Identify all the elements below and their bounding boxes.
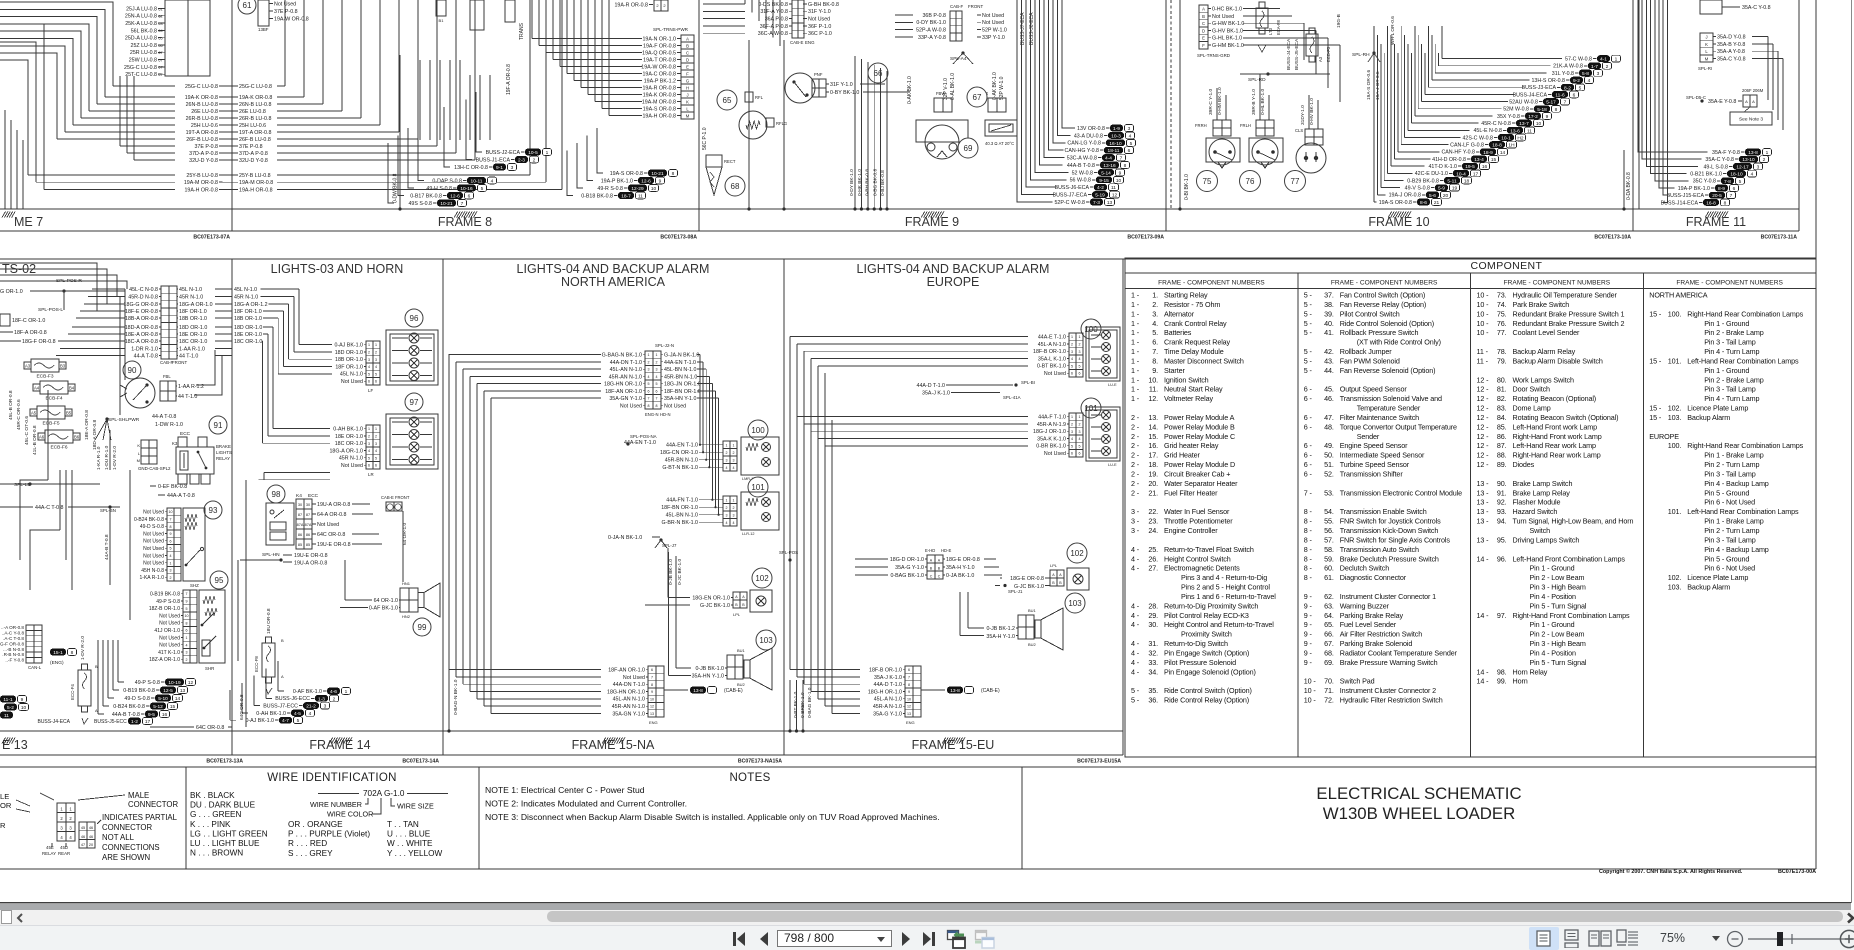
svg-text:Park Brake Switch: Park Brake Switch <box>1513 300 1570 309</box>
svg-text:A: A <box>281 674 284 679</box>
svg-text:Engine Speed Sensor: Engine Speed Sensor <box>1340 441 1408 450</box>
svg-text:FRONT: FRONT <box>172 360 187 365</box>
svg-text:20.: 20. <box>1148 479 1158 488</box>
svg-text:44A-F T-1.0: 44A-F T-1.0 <box>1038 415 1066 421</box>
svg-text:18F-AN OR-1.0: 18F-AN OR-1.0 <box>605 389 642 395</box>
svg-text:Not Used: Not Used <box>159 643 180 649</box>
svg-text:1: 1 <box>186 636 188 640</box>
svg-text:101.: 101. <box>1668 507 1682 516</box>
svg-text:Rollback Pressure Switch: Rollback Pressure Switch <box>1340 328 1419 337</box>
svg-text:4-1: 4-1 <box>1600 57 1607 63</box>
svg-text:19A-S OR-0.6: 19A-S OR-0.6 <box>1366 70 1372 100</box>
svg-text:85.: 85. <box>1497 422 1507 431</box>
connector CAN-L <box>26 625 34 663</box>
svg-text:18F-A OR-0.8: 18F-A OR-0.8 <box>14 330 47 336</box>
svg-text:10: 10 <box>21 705 27 711</box>
svg-text:26F-B LU-0.8: 26F-B LU-0.8 <box>186 137 218 143</box>
svg-text:100.: 100. <box>1668 309 1682 318</box>
svg-text:10 -: 10 - <box>1304 696 1317 705</box>
svg-text:49-H S-0.8: 49-H S-0.8 <box>426 186 452 192</box>
svg-text:15.: 15. <box>1148 432 1158 441</box>
svg-text:34.: 34. <box>1148 667 1158 676</box>
svg-text:SPL-TRNS-PWR: SPL-TRNS-PWR <box>653 27 689 32</box>
svg-text:J: J <box>1705 34 1707 39</box>
svg-text:25T-C LU-0.8: 25T-C LU-0.8 <box>125 72 157 78</box>
svg-text:4: 4 <box>1129 133 1132 139</box>
svg-text:25D-A LU-0.8: 25D-A LU-0.8 <box>125 36 157 42</box>
svg-text:1H: 1H <box>1508 143 1515 149</box>
svg-text:3: 3 <box>648 368 650 372</box>
svg-text:BC07E173-14A: BC07E173-14A <box>402 759 439 765</box>
svg-text:See Note 3: See Note 3 <box>1739 117 1763 123</box>
svg-text:2: 2 <box>1079 343 1081 347</box>
svg-text:Pin 1 - Brake Lamp: Pin 1 - Brake Lamp <box>1704 451 1763 460</box>
svg-text:13-4: 13-4 <box>1474 157 1484 163</box>
svg-text:8: 8 <box>1124 163 1127 169</box>
svg-text:66: 66 <box>158 44 162 48</box>
svg-text:90: 90 <box>128 366 137 375</box>
svg-text:Pin 4 - Turn Lamp: Pin 4 - Turn Lamp <box>1704 347 1759 356</box>
zoom slider <box>1746 930 1854 948</box>
svg-text:49-P S-0.8: 49-P S-0.8 <box>135 680 160 686</box>
svg-text:Transmission Solenoid Valve an: Transmission Solenoid Valve and <box>1340 394 1442 403</box>
svg-text:9-15: 9-15 <box>1099 178 1109 184</box>
svg-text:45E: 45E <box>46 845 54 850</box>
svg-text:GND-CAB-SPL2: GND-CAB-SPL2 <box>138 466 171 471</box>
svg-text:2: 2 <box>656 360 658 364</box>
svg-text:4: 4 <box>1751 172 1754 178</box>
junction dot frame 10 right <box>1622 207 1625 210</box>
svg-text:87A: 87A <box>305 523 312 527</box>
svg-text:35A-HN Y-1.0: 35A-HN Y-1.0 <box>692 674 724 680</box>
svg-text:31L Y-0.8: 31L Y-0.8 <box>1552 71 1574 77</box>
svg-text:5: 5 <box>375 456 377 460</box>
svg-text:4: 4 <box>491 179 494 185</box>
svg-text:25J-A LU-0.8: 25J-A LU-0.8 <box>126 6 157 12</box>
svg-text:B4: B4 <box>69 386 75 391</box>
svg-text:38.: 38. <box>1324 300 1334 309</box>
middle band borders <box>0 258 1816 260</box>
fuse ECB-F6 <box>38 433 45 440</box>
svg-text:BC07E173-11A: BC07E173-11A <box>1761 235 1798 241</box>
svg-text:14: 14 <box>175 696 181 702</box>
svg-text:Brake Lamp Switch: Brake Lamp Switch <box>1513 479 1573 488</box>
svg-text:6: 6 <box>375 380 377 384</box>
svg-text:0-AH BK-1.0: 0-AH BK-1.0 <box>256 711 286 717</box>
svg-text:19A-H OR-0.8: 19A-H OR-0.8 <box>642 113 676 119</box>
svg-text:40.: 40. <box>1324 319 1334 328</box>
svg-text:1: 1 <box>1071 415 1073 419</box>
svg-text:ECB-F5: ECB-F5 <box>42 421 59 427</box>
svg-text:1-7: 1-7 <box>1591 64 1598 70</box>
svg-text:..A-C Y-0.8: ..A-C Y-0.8 <box>2 631 25 636</box>
svg-text:8 -: 8 - <box>1304 507 1313 516</box>
svg-text:10: 10 <box>169 510 173 514</box>
svg-text:18F-BN OR-1.0: 18F-BN OR-1.0 <box>664 389 701 395</box>
svg-text:7: 7 <box>1564 100 1567 106</box>
svg-text:44A-DN T-1.0: 44A-DN T-1.0 <box>613 682 645 688</box>
history forward icon (disabled) <box>973 929 995 949</box>
module 100 EU <box>1081 319 1101 339</box>
svg-text:0-B24 BK-0.8: 0-B24 BK-0.8 <box>134 517 164 523</box>
svg-text:SPL-BN: SPL-BN <box>100 508 116 513</box>
svg-text:50.: 50. <box>1324 451 1334 460</box>
svg-text:0-AJ BK-1.0: 0-AJ BK-1.0 <box>245 718 274 724</box>
svg-text:36F-A P-0.8: 36F-A P-0.8 <box>760 24 788 30</box>
svg-text:61: 61 <box>243 1 252 10</box>
svg-text:0-HL BK-1.0: 0-HL BK-1.0 <box>1260 88 1266 115</box>
svg-text:BC07E173-09A: BC07E173-09A <box>1127 235 1164 241</box>
svg-text:19A-R OR-0.8: 19A-R OR-0.8 <box>614 3 648 9</box>
svg-text:13: 13 <box>907 712 911 716</box>
svg-text:18G-H OR-1.0: 18G-H OR-1.0 <box>868 689 902 695</box>
svg-text:Pin 4 - Backup Lamp: Pin 4 - Backup Lamp <box>1704 545 1769 554</box>
svg-text:Pin 6 - Not Used: Pin 6 - Not Used <box>1704 564 1755 573</box>
svg-text:BC07E173-NA15A: BC07E173-NA15A <box>738 759 782 765</box>
svg-text:Not Used: Not Used <box>982 13 1004 19</box>
svg-text:FRAME 8: FRAME 8 <box>438 215 492 229</box>
svg-text:7: 7 <box>651 676 653 680</box>
svg-text:5: 5 <box>1739 179 1742 185</box>
svg-text:1: 1 <box>733 498 735 502</box>
svg-text:7-8: 7-8 <box>1724 179 1731 185</box>
last page button <box>921 931 937 947</box>
svg-text:19A-S OR-0.8: 19A-S OR-0.8 <box>643 106 676 112</box>
svg-text:C: C <box>686 50 689 55</box>
fuse symbols frame 10 <box>1259 2 1265 8</box>
svg-text:18B OR-1.0: 18B OR-1.0 <box>234 316 262 322</box>
switch assembly SHZ circled 93 <box>204 501 222 519</box>
svg-text:3: 3 <box>733 513 735 517</box>
svg-text:8.: 8. <box>1152 356 1158 365</box>
svg-text:8: 8 <box>908 683 910 687</box>
svg-text:2: 2 <box>368 435 370 439</box>
svg-text:LF: LF <box>368 388 373 393</box>
svg-text:12 -: 12 - <box>1477 394 1490 403</box>
svg-text:90.: 90. <box>1497 479 1507 488</box>
svg-text:5.: 5. <box>1152 328 1158 337</box>
svg-text:69.: 69. <box>1324 658 1334 667</box>
svg-text:12 -: 12 - <box>1477 451 1490 460</box>
svg-text:102: 102 <box>755 574 769 583</box>
svg-text:Pin 5 - Turn Signal: Pin 5 - Turn Signal <box>1530 658 1587 667</box>
svg-text:4.: 4. <box>1152 319 1158 328</box>
vertical wire 0-DW BK-0.8 <box>399 55 401 209</box>
svg-text:4: 4 <box>375 365 377 369</box>
svg-text:5 -: 5 - <box>1304 319 1313 328</box>
svg-text:49.: 49. <box>1324 441 1334 450</box>
svg-text:36A P-0.8: 36A P-0.8 <box>765 17 788 23</box>
svg-text:4: 4 <box>733 521 735 525</box>
svg-text:46: 46 <box>81 835 85 839</box>
svg-text:Height Control Switch: Height Control Switch <box>1164 554 1231 563</box>
svg-text:18C-A OR-0.8: 18C-A OR-0.8 <box>125 339 158 345</box>
svg-text:1: 1 <box>368 427 370 431</box>
svg-text:27.: 27. <box>1148 564 1158 573</box>
svg-text:13 -: 13 - <box>1477 517 1490 526</box>
svg-text:1-3: 1-3 <box>318 696 325 702</box>
svg-text:8: 8 <box>170 525 172 529</box>
svg-text:5 -: 5 - <box>1304 366 1313 375</box>
svg-text:81.: 81. <box>1497 385 1507 394</box>
svg-text:26.: 26. <box>1148 554 1158 563</box>
svg-text:65: 65 <box>158 37 162 41</box>
svg-text:1 -: 1 - <box>1131 291 1140 300</box>
svg-text:E: E <box>686 64 689 69</box>
licence plate lamp 102 EU <box>1067 543 1087 563</box>
svg-text:44A-B T-0.8: 44A-B T-0.8 <box>104 534 110 560</box>
svg-text:1: 1 <box>656 353 658 357</box>
svg-text:SPL-TRNS-GRD: SPL-TRNS-GRD <box>1197 53 1230 58</box>
svg-text:8: 8 <box>1555 107 1558 113</box>
svg-text:45L-BN N-1.0: 45L-BN N-1.0 <box>666 513 698 519</box>
svg-text:Return-to-Dig Switch: Return-to-Dig Switch <box>1164 639 1228 648</box>
svg-text:BUSS-J6-ECA: BUSS-J6-ECA <box>1029 12 1035 45</box>
svg-text:LIGHTS-04 AND BACKUP ALARM: LIGHTS-04 AND BACKUP ALARM <box>517 262 710 276</box>
svg-text:3: 3 <box>1079 430 1081 434</box>
svg-text:(CAB-E): (CAB-E) <box>981 688 1000 694</box>
svg-text:65.: 65. <box>1324 620 1334 629</box>
svg-text:Pin 5 - Ground: Pin 5 - Ground <box>1704 488 1749 497</box>
licence plate lamp 102 NA <box>752 568 772 588</box>
svg-text:CAN-LG Y-0.8: CAN-LG Y-0.8 <box>1067 141 1101 147</box>
svg-text:56C P-1.0: 56C P-1.0 <box>702 127 708 150</box>
svg-text:26N-B LU-0.8: 26N-B LU-0.8 <box>186 102 218 108</box>
svg-text:0-DY BK-1.0: 0-DY BK-1.0 <box>916 20 946 26</box>
svg-text:0-BG BK-0.8: 0-BG BK-0.8 <box>872 168 878 196</box>
next page button <box>899 931 913 947</box>
svg-text:0-JC BK-1.0: 0-JC BK-1.0 <box>677 559 683 585</box>
svg-text:21-2: 21-2 <box>306 704 316 710</box>
svg-text:1 -: 1 - <box>1131 338 1140 347</box>
svg-text:C: C <box>1202 21 1205 26</box>
svg-text:Not Used: Not Used <box>982 20 1004 26</box>
svg-text:G-HM BK-1.0: G-HM BK-1.0 <box>1212 43 1244 49</box>
svg-text:8 -: 8 - <box>1304 573 1313 582</box>
svg-text:8-2: 8-2 <box>1564 85 1571 91</box>
svg-text:Throttle Potentiometer: Throttle Potentiometer <box>1164 517 1233 526</box>
svg-text:Transmission Kick-Down Switch: Transmission Kick-Down Switch <box>1340 526 1439 535</box>
svg-text:19A-P BK-1.2: 19A-P BK-1.2 <box>644 78 676 84</box>
svg-text:2 -: 2 - <box>1131 451 1140 460</box>
svg-text:5: 5 <box>1071 444 1073 448</box>
svg-text:19A-M OR-0.8: 19A-M OR-0.8 <box>239 180 273 186</box>
svg-text:G-BAG-N BK-1.0: G-BAG-N BK-1.0 <box>602 353 642 359</box>
svg-text:Hazard Switch: Hazard Switch <box>1513 507 1558 516</box>
svg-text:44A-B T-0.8: 44A-B T-0.8 <box>112 712 140 718</box>
svg-text:25N-A LU-0.8: 25N-A LU-0.8 <box>125 14 157 20</box>
svg-text:45L-A N-1.0: 45L-A N-1.0 <box>874 697 902 703</box>
svg-text:44A-EN T-1.0: 44A-EN T-1.0 <box>664 360 696 366</box>
svg-text:10.: 10. <box>1148 375 1158 384</box>
svg-text:2: 2 <box>1071 423 1073 427</box>
svg-text:4: 4 <box>1079 357 1081 361</box>
svg-text:67.: 67. <box>1324 639 1334 648</box>
svg-text:Pin 3 - High Beam: Pin 3 - High Beam <box>1530 639 1586 648</box>
svg-text:FRLH: FRLH <box>1240 123 1251 128</box>
svg-text:Power Relay Module C: Power Relay Module C <box>1164 432 1235 441</box>
svg-text:HD-N: HD-N <box>660 412 670 417</box>
svg-text:Pins 1 and 6 - Return-to-Trave: Pins 1 and 6 - Return-to-Travel <box>1181 592 1276 601</box>
svg-text:..G-F OR-0.8: ..G-F OR-0.8 <box>0 641 24 646</box>
svg-text:FRAME 11: FRAME 11 <box>1686 215 1746 229</box>
svg-text:0-B19 BK-0.8: 0-B19 BK-0.8 <box>150 592 180 598</box>
svg-text:Not Used: Not Used <box>317 522 339 528</box>
svg-text:2: 2 <box>1763 157 1766 163</box>
svg-text:19A-W OR-0.8: 19A-W OR-0.8 <box>641 64 676 70</box>
svg-text:18G-A OR-1.2: 18G-A OR-1.2 <box>234 302 268 308</box>
svg-text:19A-P BK-1.0: 19A-P BK-1.0 <box>1678 186 1710 192</box>
svg-text:Turbine Speed Sensor: Turbine Speed Sensor <box>1340 460 1410 469</box>
svg-text:9 -: 9 - <box>1304 611 1313 620</box>
svg-text:11: 11 <box>1527 128 1532 134</box>
svg-text:1: 1 <box>368 343 370 347</box>
svg-text:BUSS-J7-ECA: BUSS-J7-ECA <box>1020 12 1026 45</box>
svg-text:2 -: 2 - <box>1131 488 1140 497</box>
svg-text:4 -: 4 - <box>1131 601 1140 610</box>
svg-text:4: 4 <box>368 365 370 369</box>
svg-text:10 -: 10 - <box>1477 291 1490 300</box>
svg-text:32.: 32. <box>1148 648 1158 657</box>
svg-text:36B P-0.8: 36B P-0.8 <box>922 13 946 19</box>
svg-text:56L BK-0.8: 56L BK-0.8 <box>131 28 157 34</box>
svg-text:5: 5 <box>648 382 650 386</box>
svg-text:R: R <box>0 821 6 830</box>
svg-text:45L-C OT-0.6: 45L-C OT-0.6 <box>24 416 30 445</box>
svg-text:(ENG): (ENG) <box>50 660 64 666</box>
svg-text:49-R S-0.8: 49-R S-0.8 <box>597 186 623 192</box>
svg-text:26R-B LU-0.8: 26R-B LU-0.8 <box>186 116 218 122</box>
svg-text:10 -: 10 - <box>1477 319 1490 328</box>
svg-text:35A-C Y-0.8: 35A-C Y-0.8 <box>1717 56 1746 62</box>
svg-text:1-DU R-1.0: 1-DU R-1.0 <box>104 445 110 470</box>
svg-text:B6: B6 <box>74 435 80 440</box>
svg-text:SPL-J2-N: SPL-J2-N <box>655 343 674 348</box>
svg-text:13 -: 13 - <box>1477 498 1490 507</box>
svg-text:19G-B: 19G-B <box>1336 14 1342 28</box>
svg-text:BC07E173-07A: BC07E173-07A <box>193 235 230 241</box>
svg-text:9 -: 9 - <box>1304 658 1313 667</box>
svg-text:Pin 3 - Tail Lamp: Pin 3 - Tail Lamp <box>1704 535 1755 544</box>
svg-text:9 -: 9 - <box>1304 630 1313 639</box>
svg-text:67: 67 <box>973 93 982 102</box>
svg-text:18G-CN OR-1.0: 18G-CN OR-1.0 <box>660 450 698 456</box>
svg-text:57.: 57. <box>1324 535 1334 544</box>
svg-text:78.: 78. <box>1497 347 1507 356</box>
svg-text:2-3: 2-3 <box>518 158 525 164</box>
svg-text:Instrument Cluster Connector 1: Instrument Cluster Connector 1 <box>1340 592 1436 601</box>
svg-text:103: 103 <box>1068 599 1082 608</box>
svg-text:18G-HN OR-1.0: 18G-HN OR-1.0 <box>607 689 645 695</box>
svg-text:12-5: 12-5 <box>163 688 173 694</box>
svg-text:Time Delay Module: Time Delay Module <box>1164 347 1224 356</box>
svg-text:10-5: 10-5 <box>528 150 538 156</box>
svg-text:SPL-RI: SPL-RI <box>1698 66 1712 71</box>
svg-text:35.: 35. <box>1148 686 1158 695</box>
svg-text:Pin 4 - Position: Pin 4 - Position <box>1530 592 1577 601</box>
svg-text:0-B24 BK-0.8: 0-B24 BK-0.8 <box>113 704 145 710</box>
svg-text:21.: 21. <box>1148 488 1158 497</box>
svg-text:7: 7 <box>1120 156 1123 162</box>
svg-text:Rotating Beacon (Optional): Rotating Beacon (Optional) <box>1513 394 1597 403</box>
svg-text:12 -: 12 - <box>1477 460 1490 469</box>
svg-text:6: 6 <box>1079 372 1081 376</box>
svg-text:59.: 59. <box>1324 554 1334 563</box>
svg-text:LLR-12: LLR-12 <box>742 532 754 536</box>
svg-text:18E-A OR-0.8: 18E-A OR-0.8 <box>84 410 90 440</box>
svg-text:Pin 2 - Brake Lamp: Pin 2 - Brake Lamp <box>1704 375 1763 384</box>
svg-text:Y . . . YELLOW: Y . . . YELLOW <box>387 849 442 858</box>
svg-text:18D OR-1.0: 18D OR-1.0 <box>335 350 363 356</box>
svg-text:SPL-POS: SPL-POS <box>779 550 798 555</box>
svg-text:6 -: 6 - <box>1304 385 1313 394</box>
svg-text:Driving Lamps Switch: Driving Lamps Switch <box>1513 535 1580 544</box>
resistor WRG 40.3 ohm <box>988 98 997 112</box>
svg-text:NOTES: NOTES <box>729 772 770 784</box>
svg-text:RFL: RFL <box>755 95 764 100</box>
svg-text:LIGHTS-03 AND HORN: LIGHTS-03 AND HORN <box>271 262 404 276</box>
svg-text:DU . DARK BLUE: DU . DARK BLUE <box>190 801 256 810</box>
svg-text:18F-E OR-0.8: 18F-E OR-0.8 <box>125 309 158 315</box>
svg-text:0-BAG BK-1.0: 0-BAG BK-1.0 <box>807 687 813 718</box>
svg-text:Diagnostic Connector: Diagnostic Connector <box>1340 573 1407 582</box>
svg-text:7.: 7. <box>1152 347 1158 356</box>
svg-text:45R-BN N-1.0: 45R-BN N-1.0 <box>664 374 697 380</box>
svg-text:BU2: BU2 <box>737 682 746 687</box>
svg-text:Sender: Sender <box>1357 432 1380 441</box>
svg-text:25H LU-0.6: 25H LU-0.6 <box>239 123 266 129</box>
EU feeder wire 7th row <box>832 712 860 714</box>
svg-text:0-BAG BK-1.0: 0-BAG BK-1.0 <box>890 573 924 579</box>
svg-text:10-21: 10-21 <box>440 201 453 207</box>
svg-text:15: 15 <box>1491 157 1497 163</box>
left bundle EU <box>789 337 791 670</box>
svg-text:5-12: 5-12 <box>153 704 163 710</box>
svg-text:G-JC BK-1.0: G-JC BK-1.0 <box>700 603 730 609</box>
svg-text:12 -: 12 - <box>1477 404 1490 413</box>
svg-text:5 -: 5 - <box>1304 300 1313 309</box>
svg-text:8: 8 <box>651 683 653 687</box>
svg-text:45R-A N-1.0: 45R-A N-1.0 <box>873 704 902 710</box>
svg-text:88.: 88. <box>1497 451 1507 460</box>
svg-text:15-1: 15-1 <box>53 650 63 656</box>
svg-text:11: 11 <box>4 713 9 719</box>
svg-text:8: 8 <box>186 621 188 625</box>
svg-text:35A-C Y-0.8: 35A-C Y-0.8 <box>1742 5 1771 11</box>
svg-text:55.: 55. <box>1324 517 1334 526</box>
svg-text:WIRE COLOR: WIRE COLOR <box>327 810 373 819</box>
svg-text:53.: 53. <box>1324 488 1334 497</box>
svg-text:26E LU-0.8: 26E LU-0.8 <box>239 109 266 115</box>
svg-text:B3: B3 <box>60 364 66 369</box>
svg-text:BC07E173-EU15A: BC07E173-EU15A <box>1077 759 1121 765</box>
svg-text:1-DV R-2.0: 1-DV R-2.0 <box>80 636 86 660</box>
svg-text:21K-A W-0.8: 21K-A W-0.8 <box>1553 64 1583 70</box>
svg-text:4 -: 4 - <box>1131 667 1140 676</box>
svg-text:6: 6 <box>375 464 377 468</box>
svg-text:5: 5 <box>1130 141 1133 147</box>
svg-text:26E LU-0.8: 26E LU-0.8 <box>191 109 218 115</box>
svg-text:W130B WHEEL LOADER: W130B WHEEL LOADER <box>1323 804 1515 823</box>
svg-text:98: 98 <box>272 490 281 499</box>
svg-text:18.: 18. <box>1148 460 1158 469</box>
svg-text:6: 6 <box>1071 452 1073 456</box>
svg-text:64C OR-0.8: 64C OR-0.8 <box>196 725 224 731</box>
zoom in <box>1839 929 1854 949</box>
connector SPL-RI frame 11 <box>1700 33 1713 62</box>
module 100 NA <box>748 420 768 440</box>
svg-text:A6: A6 <box>39 435 45 440</box>
